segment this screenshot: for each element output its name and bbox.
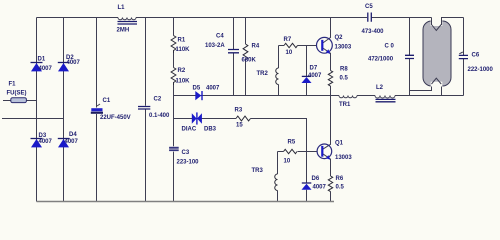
wire diac branch (174, 119, 307, 152)
wire C4 branch (233, 18, 235, 96)
svg-text:C1: C1 (103, 98, 111, 104)
resistor R2 (171, 68, 176, 86)
diac DB3 (192, 113, 197, 124)
lamp top pins (432, 18, 442, 26)
svg-text:D6: D6 (312, 176, 320, 182)
wire R4 branch (245, 18, 247, 96)
fuse F1 (11, 98, 27, 103)
svg-text:R3: R3 (235, 108, 243, 114)
wire R1 R2 C3 branch (173, 18, 175, 202)
capacitor C2 (138, 107, 150, 110)
diode D7 (302, 75, 312, 77)
transistor Q2 (317, 37, 333, 53)
svg-text:D1: D1 (38, 57, 46, 63)
svg-text:C5: C5 (365, 4, 373, 10)
svg-text:DIAC: DIAC (182, 127, 197, 133)
svg-text:223-100: 223-100 (177, 160, 200, 166)
svg-text:4007: 4007 (65, 139, 79, 145)
svg-text:D3: D3 (39, 133, 47, 139)
wire Q2 base (279, 45, 318, 47)
resistor R7 (284, 43, 298, 47)
svg-text:4007: 4007 (206, 86, 220, 92)
wire D7 branch (306, 46, 308, 96)
svg-text:15: 15 (236, 123, 243, 129)
wire C0 branch (409, 18, 411, 96)
wire C2 branch (145, 18, 147, 202)
wire Q1 emitter (323, 154, 331, 202)
wire Q1 base (278, 151, 318, 153)
transistor Q1 (317, 144, 332, 159)
svg-text:4007: 4007 (39, 139, 53, 145)
svg-text:110K: 110K (176, 47, 191, 53)
svg-text:4007: 4007 (313, 185, 327, 191)
capacitor C5 (368, 13, 372, 22)
resistor R4 (243, 44, 248, 60)
inductor L2 (375, 96, 395, 99)
wire vertical bridge arm B (63, 18, 65, 202)
transformer winding TR3 (275, 174, 278, 191)
svg-text:C6: C6 (472, 53, 480, 59)
svg-text:680K: 680K (242, 58, 257, 64)
svg-text:TR2: TR2 (257, 71, 269, 77)
wire TR3 branch (277, 152, 279, 202)
svg-text:103-2A: 103-2A (205, 43, 225, 49)
svg-text:TR3: TR3 (252, 168, 264, 174)
svg-text:222-1000: 222-1000 (468, 67, 494, 73)
wire top rail (37, 17, 432, 19)
svg-text:C4: C4 (216, 34, 224, 40)
svg-text:13003: 13003 (335, 45, 352, 51)
svg-text:10: 10 (284, 159, 291, 165)
svg-text:L2: L2 (376, 85, 384, 91)
resistor R3 (236, 116, 251, 121)
resistor R8 (328, 71, 332, 87)
lamp bottom filament (432, 78, 442, 84)
wire C6 right border (463, 18, 465, 96)
svg-text:C2: C2 (154, 97, 162, 103)
svg-text:D7: D7 (310, 66, 318, 72)
svg-text:472/1000: 472/1000 (368, 57, 394, 63)
wire Q2 collector (323, 18, 331, 44)
capacitor C0 (405, 55, 414, 58)
svg-text:F1: F1 (9, 82, 17, 88)
svg-text:R1: R1 (178, 38, 186, 44)
svg-text:22UF-450V: 22UF-450V (100, 115, 131, 121)
svg-text:R2: R2 (178, 68, 186, 74)
svg-text:R4: R4 (252, 44, 260, 50)
wire D6 branch (306, 152, 308, 202)
svg-text:R7: R7 (284, 37, 292, 43)
svg-text:2MH: 2MH (117, 28, 130, 34)
wire vertical bridge arm A (36, 18, 38, 202)
svg-text:0.1-400: 0.1-400 (149, 113, 170, 119)
wire fuse input (3, 100, 37, 102)
diode D5 (195, 91, 201, 100)
transformer winding TR2 (276, 68, 279, 85)
svg-text:R5: R5 (288, 140, 296, 146)
svg-text:4007: 4007 (308, 73, 322, 79)
svg-text:Q1: Q1 (335, 141, 344, 147)
capacitor C3 (169, 147, 179, 149)
resistor R6 (328, 176, 332, 192)
svg-text:110K: 110K (176, 79, 191, 85)
svg-text:4007: 4007 (67, 60, 81, 66)
resistor R1 (171, 36, 176, 54)
capacitor C6 (459, 55, 468, 58)
svg-text:FU(SE): FU(SE) (7, 91, 27, 97)
svg-text:10: 10 (286, 50, 293, 56)
wire top-right segment to C6 (442, 18, 464, 26)
svg-text:4007: 4007 (39, 66, 53, 72)
svg-text:D4: D4 (69, 132, 77, 138)
transformer winding TR1 (339, 96, 357, 98)
capacitor C1 (97, 104, 100, 106)
svg-text:C 0: C 0 (385, 44, 395, 50)
inductor L1 (118, 18, 136, 20)
svg-text:L1: L1 (118, 5, 126, 11)
wire Q2 emitter / Q1 collector (323, 48, 331, 149)
wire lamp bottom-right pin (441, 84, 443, 96)
capacitor C4 (228, 50, 239, 53)
wire C1 branch (96, 18, 98, 202)
diode D3 (31, 138, 43, 140)
diode D6 (302, 182, 312, 184)
wire bottom rail (37, 201, 335, 203)
diode D4 (58, 138, 70, 140)
wire TR2 branch (278, 46, 280, 96)
svg-text:13003: 13003 (335, 155, 352, 161)
resistor R5 (284, 149, 298, 153)
svg-text:473-400: 473-400 (362, 29, 385, 35)
lamp tube (423, 21, 451, 86)
lamp top filament (432, 25, 442, 31)
wire mid rail (174, 95, 464, 97)
svg-text:0.5: 0.5 (336, 185, 345, 191)
diode D2 (58, 62, 70, 64)
svg-text:C3: C3 (182, 150, 190, 156)
svg-text:0.5: 0.5 (340, 76, 349, 82)
svg-text:Q2: Q2 (335, 35, 344, 41)
svg-text:R6: R6 (336, 176, 344, 182)
svg-text:D5: D5 (193, 86, 201, 92)
diode D1 (31, 62, 43, 64)
svg-text:R8: R8 (340, 67, 348, 73)
svg-text:TR1: TR1 (339, 102, 351, 108)
wire lamp bottom-left pin jog (410, 84, 432, 91)
wire neutral input (2, 118, 64, 120)
svg-text:DB3: DB3 (204, 127, 217, 133)
